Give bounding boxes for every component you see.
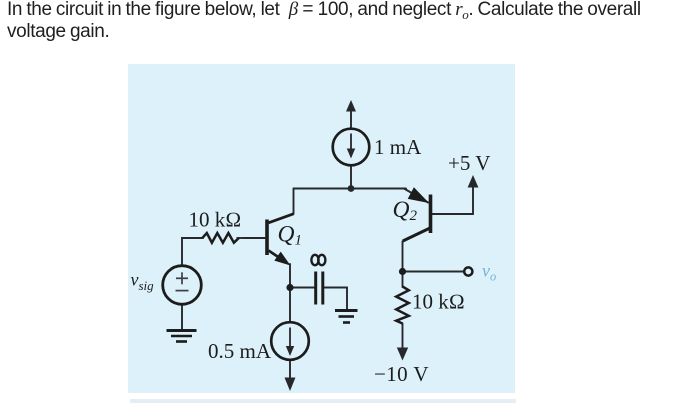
current source 0.5 mA circle [271,322,309,360]
Q1 base bar [265,220,269,256]
wire: base lead of Q1 from resistor [244,237,265,239]
resistor R2 10 kOhm (vertical) [396,287,409,324]
source v_sig circle [163,266,202,305]
arrowhead down to -10V [397,348,408,361]
minus sign inside v_sig [176,290,189,292]
svg-text:0.5 mA: 0.5 mA [208,339,272,363]
wire: 0.5 mA source bottom lead [289,360,291,380]
wire: Q1 collector riser [293,189,295,215]
Q2 emitter arrowhead pointing into bar [408,187,429,203]
figure background [128,64,515,393]
node dot at Q1 emitter / capacitor junction [286,284,293,291]
arrowhead down below 0.5 mA source [285,378,296,392]
svg-text:vsig: vsig [131,270,155,294]
resistor R1 10 kOhm (horizontal) [203,233,240,243]
svg-text:10 kΩ: 10 kΩ [189,208,242,232]
svg-text:−10 V: −10 V [374,362,429,386]
wire: resistor R2 bottom lead to -10V arrow [402,324,404,349]
output terminal open circle [464,267,472,275]
wire: output node to terminal [403,271,464,273]
plus sign inside v_sig [176,272,189,290]
label infinity [311,255,325,265]
arrow inside 0.5 mA source [286,328,294,357]
wire: Q1 emitter down to 0.5 mA source [289,264,291,323]
ground 2 (capacitor) [335,311,358,323]
svg-text:Q1: Q1 [278,222,302,249]
svg-text:Q2: Q2 [393,197,418,224]
node dot at rail / 1 mA junction [348,185,355,192]
wire: v_sig to ground [181,305,183,330]
current source I1 1 mA circle [333,129,370,166]
svg-text:1 mA: 1 mA [374,135,422,159]
svg-text:10 kΩ: 10 kΩ [412,290,465,314]
capacitor C (infinite) plates [316,272,323,305]
wire: top rail from Q1 collector to Q2 emitter [294,188,407,190]
Q2 collector diagonal thick [403,228,430,241]
arrow inside 1 mA source [347,134,355,159]
wire: output node to resistor R2 top lead [402,272,404,288]
svg-text:vo: vo [482,261,496,284]
wire: Q2 base to +5V [433,187,474,214]
wire: Q2 collector diagonal [403,229,431,273]
wire: Q2 emitter lead diagonal [404,189,428,203]
Q2 base bar [429,195,433,234]
transistor Q1 (NPN) [265,214,293,266]
wire: v_sig to resistor corner [182,238,203,265]
wire: 1 mA source top lead with up arrow [350,111,352,129]
ground under v_sig [167,331,197,342]
+5V arrowhead up [468,175,479,188]
wire: node to capacitor [290,287,314,289]
Q1 emitter diagonal with arrow [269,251,283,260]
svg-text:+5 V: +5 V [448,151,490,175]
transistor Q2 (PNP) [403,187,433,241]
node dot at output [399,268,406,275]
arrowhead up above 1 mA source [346,100,356,112]
wire: 1 mA source bottom lead [350,166,352,189]
wire: capacitor to ground 2 [325,288,348,310]
Q1 collector diagonal [269,214,294,223]
